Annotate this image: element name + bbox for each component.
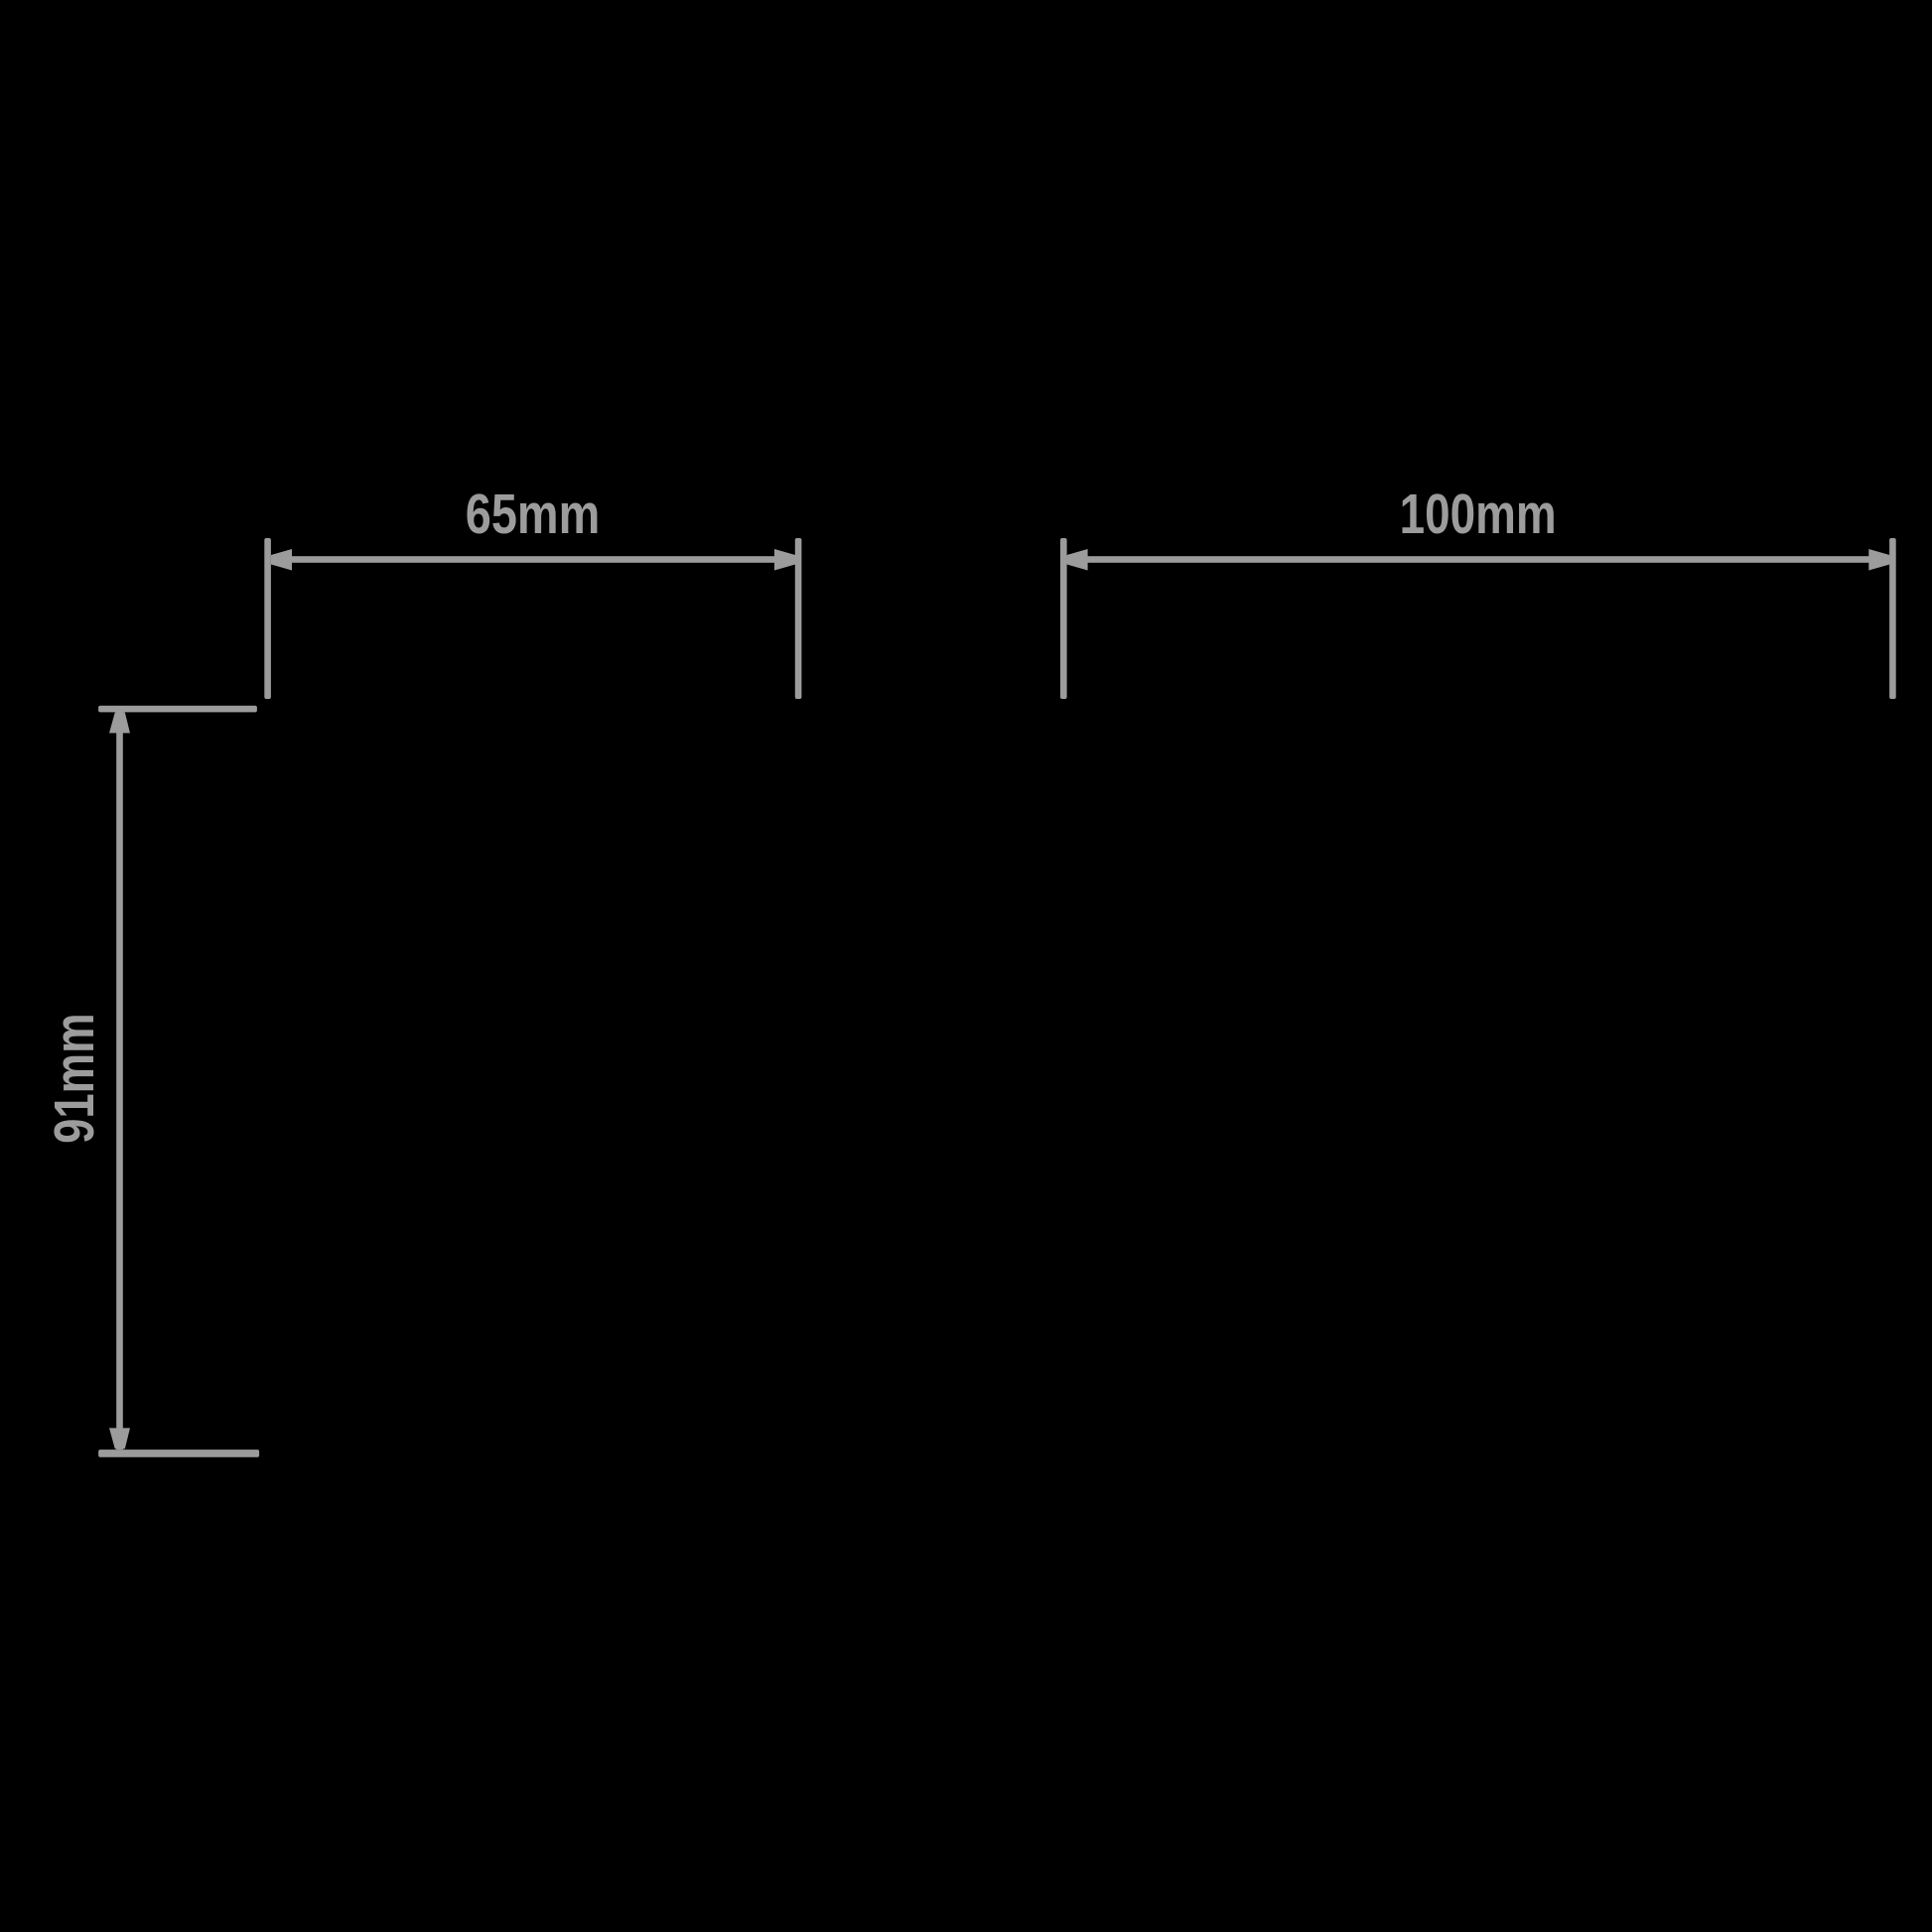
svg-text:91mm: 91mm	[43, 1014, 106, 1144]
dimension 91mm: top arrowhead	[109, 712, 130, 733]
dimension 91mm: bottom arrowhead	[109, 1428, 130, 1449]
dimension 65mm: dimension line	[271, 556, 795, 563]
dimension 65mm: right extension line	[795, 538, 802, 699]
dimension 65mm: right arrowhead	[774, 549, 795, 571]
dimension 100mm: dimension line	[1067, 556, 1890, 563]
svg-text:65mm: 65mm	[466, 483, 601, 546]
dimension 65mm: left extension line	[264, 538, 271, 699]
dimension 100mm: right arrowhead	[1868, 549, 1889, 571]
dimension 91mm: bottom extension line	[98, 1449, 259, 1457]
dimension 65mm: left arrowhead	[271, 549, 292, 571]
dimension 91mm: top extension line	[98, 706, 257, 713]
svg-text:100mm: 100mm	[1400, 483, 1557, 546]
dimension 100mm: left arrowhead	[1067, 549, 1088, 571]
dimension 100mm: left extension line	[1060, 538, 1067, 699]
dimension 100mm: right extension line	[1889, 538, 1896, 699]
dimension 91mm: dimension line	[116, 712, 123, 1450]
